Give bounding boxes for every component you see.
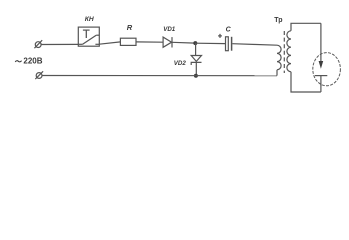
transformer secondary winding <box>287 31 291 72</box>
terminal X2 (bottom left) <box>35 71 43 79</box>
wire: R to VD1 <box>136 41 163 43</box>
svg-text:Тр: Тр <box>274 17 282 24</box>
wire: VD1 to node A <box>172 41 195 44</box>
wire bottom rail <box>42 75 277 77</box>
resistor R <box>120 38 136 45</box>
wire: KH to R <box>99 42 120 44</box>
wire: secondary top lead <box>291 23 321 31</box>
capacitor C (polarized) <box>226 37 232 51</box>
arrowhead <box>319 61 324 69</box>
svg-text:VD1: VD1 <box>163 26 176 33</box>
wire: arrow lead into lamp <box>320 23 322 62</box>
svg-text:КН: КН <box>85 16 94 23</box>
svg-text:220В: 220В <box>23 56 42 65</box>
transformer primary winding <box>277 45 281 70</box>
lamp envelope (dashed circle) <box>313 53 341 86</box>
label ~220В <box>15 56 43 65</box>
diode VD1 <box>163 37 172 47</box>
electrode (anode T) <box>315 76 327 92</box>
node B (junction dot on bottom rail) <box>194 74 198 78</box>
label + <box>218 34 222 38</box>
switch КН (push-button in box) <box>78 27 99 46</box>
wire: node A to C <box>195 42 225 44</box>
svg-text:C: C <box>226 26 232 33</box>
wire: bottom right loop <box>291 72 321 92</box>
transformer core <box>283 31 285 73</box>
terminal X1 (top left) <box>34 40 42 48</box>
zener VD2 <box>191 43 201 76</box>
wire: C to transformer primary <box>232 44 277 46</box>
node A (junction dot) <box>193 41 197 45</box>
wire top rail: terminal to KH <box>41 43 78 45</box>
svg-text:R: R <box>127 23 133 32</box>
svg-text:VD2: VD2 <box>174 60 187 67</box>
wire: primary bottom lead <box>276 70 278 76</box>
